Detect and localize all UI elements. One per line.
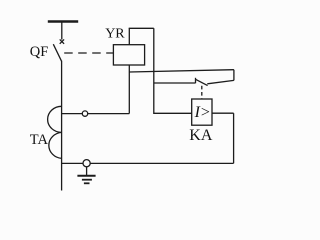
terminal circle top <box>82 111 87 116</box>
wire main vertical feeder <box>61 61 63 191</box>
mechanical linkage QF to YR (dashed) <box>64 52 113 54</box>
wire KA right lead <box>212 112 234 114</box>
svg-text:QF: QF <box>30 44 49 60</box>
svg-text:YR: YR <box>105 26 125 41</box>
busbar <box>48 20 78 22</box>
wire top loop horizontal <box>129 27 154 29</box>
dashed linkage contact to KA coil <box>201 86 203 99</box>
circuit breaker QF x-mark <box>60 39 64 43</box>
wire right loop vertical <box>233 70 235 81</box>
wire YR top stub <box>128 28 130 44</box>
relay KA coil box <box>192 99 212 125</box>
wire contact right lead <box>207 80 234 83</box>
wire bottom return line <box>62 162 234 164</box>
wire YR bottom vertical <box>128 65 130 114</box>
KA contact blade <box>195 79 207 85</box>
circuit breaker QF blade <box>53 44 61 61</box>
wire TA secondary top lead <box>62 113 130 115</box>
wire contact left lead <box>154 82 196 84</box>
svg-text:TA: TA <box>30 132 49 148</box>
ground symbol <box>77 167 95 183</box>
wire right vertical return <box>233 113 235 163</box>
wire busbar drop <box>61 23 63 40</box>
wire horizontal node A to right <box>129 70 234 72</box>
current transformer TA winding arcs <box>48 106 62 158</box>
svg-text:KA: KA <box>189 127 213 144</box>
trip coil YR box <box>113 45 144 65</box>
svg-text:I>: I> <box>194 104 211 121</box>
terminal circle bottom <box>83 160 90 167</box>
KA contact fixed tick <box>195 78 197 83</box>
wire long vertical to KA coil <box>154 28 192 113</box>
